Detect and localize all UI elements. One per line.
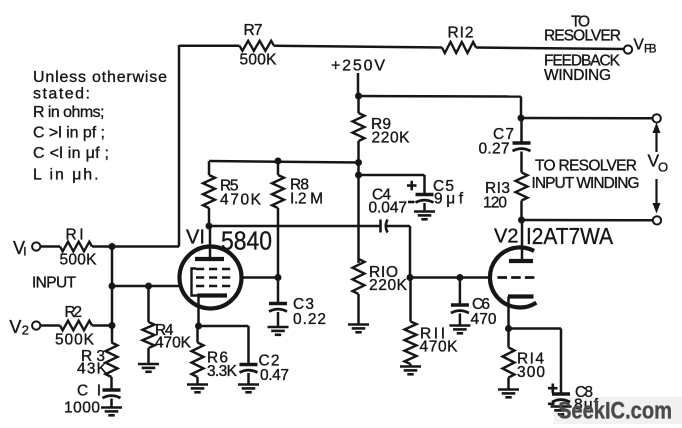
svg-text:500K: 500K <box>60 252 98 269</box>
svg-text:C >l in pf ;: C >l in pf ; <box>33 125 105 142</box>
svg-text:VI: VI <box>186 227 205 249</box>
svg-text:R in ohms;: R in ohms; <box>33 104 105 121</box>
svg-text:220K: 220K <box>369 277 408 294</box>
svg-text:I: I <box>23 245 26 259</box>
svg-text:470K: 470K <box>155 335 192 352</box>
svg-text:220K: 220K <box>372 130 411 147</box>
svg-text:43K: 43K <box>77 361 108 378</box>
svg-text:RESOLVER: RESOLVER <box>544 28 621 45</box>
svg-text:SeekIC.com: SeekIC.com <box>558 398 672 425</box>
svg-text:0.27: 0.27 <box>479 141 510 158</box>
svg-text:I.2 M: I.2 M <box>290 191 323 208</box>
svg-text:V2: V2 <box>494 226 518 248</box>
svg-text:V: V <box>9 317 21 337</box>
svg-text:2: 2 <box>22 323 29 338</box>
svg-text:R2: R2 <box>65 304 83 321</box>
svg-text:500K: 500K <box>55 332 95 349</box>
svg-text:470K: 470K <box>220 192 262 209</box>
svg-text:120: 120 <box>483 195 507 212</box>
svg-text:470: 470 <box>471 311 497 328</box>
svg-text:1000: 1000 <box>64 400 100 417</box>
svg-text:RI: RI <box>66 227 84 244</box>
svg-text:O: O <box>658 160 668 175</box>
svg-text:R7: R7 <box>244 22 263 39</box>
svg-text:L in μh.: L in μh. <box>33 167 100 184</box>
svg-text:500K: 500K <box>240 52 278 69</box>
svg-text:300: 300 <box>517 364 545 381</box>
svg-text:I2AT7WA: I2AT7WA <box>526 223 614 249</box>
svg-text:WINDING: WINDING <box>544 67 611 84</box>
svg-text:3.3K: 3.3K <box>207 363 238 380</box>
svg-text:9μf: 9μf <box>434 191 464 208</box>
svg-text:5840: 5840 <box>221 226 272 256</box>
svg-text:INPUT WINDING: INPUT WINDING <box>532 175 640 192</box>
svg-text:FB: FB <box>644 43 657 55</box>
svg-text:INPUT: INPUT <box>32 275 77 292</box>
svg-text:V: V <box>634 37 645 54</box>
svg-text:C <l in μf ;: C <l in μf ; <box>33 145 109 162</box>
svg-text:Unless otherwise: Unless otherwise <box>33 69 167 86</box>
svg-text:+250V: +250V <box>331 58 385 75</box>
svg-text:0.047: 0.047 <box>369 200 408 217</box>
svg-text:470K: 470K <box>420 339 459 356</box>
svg-text:stated:: stated: <box>33 86 90 103</box>
svg-text:RI2: RI2 <box>448 25 474 42</box>
svg-text:TO RESOLVER: TO RESOLVER <box>535 158 637 175</box>
svg-text:0.47: 0.47 <box>260 367 289 384</box>
svg-text:0.22: 0.22 <box>293 311 326 328</box>
